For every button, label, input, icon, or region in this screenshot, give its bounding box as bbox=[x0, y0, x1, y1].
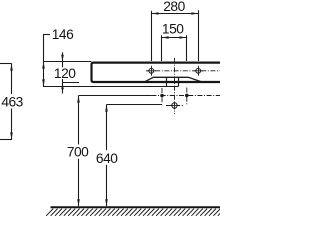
svg-text:700: 700 bbox=[67, 145, 89, 160]
svg-text:280: 280 bbox=[163, 0, 185, 14]
svg-text:120: 120 bbox=[54, 66, 76, 81]
svg-text:146: 146 bbox=[52, 27, 74, 42]
svg-text:640: 640 bbox=[96, 151, 118, 166]
svg-text:150: 150 bbox=[162, 21, 184, 36]
svg-text:463: 463 bbox=[1, 94, 23, 109]
